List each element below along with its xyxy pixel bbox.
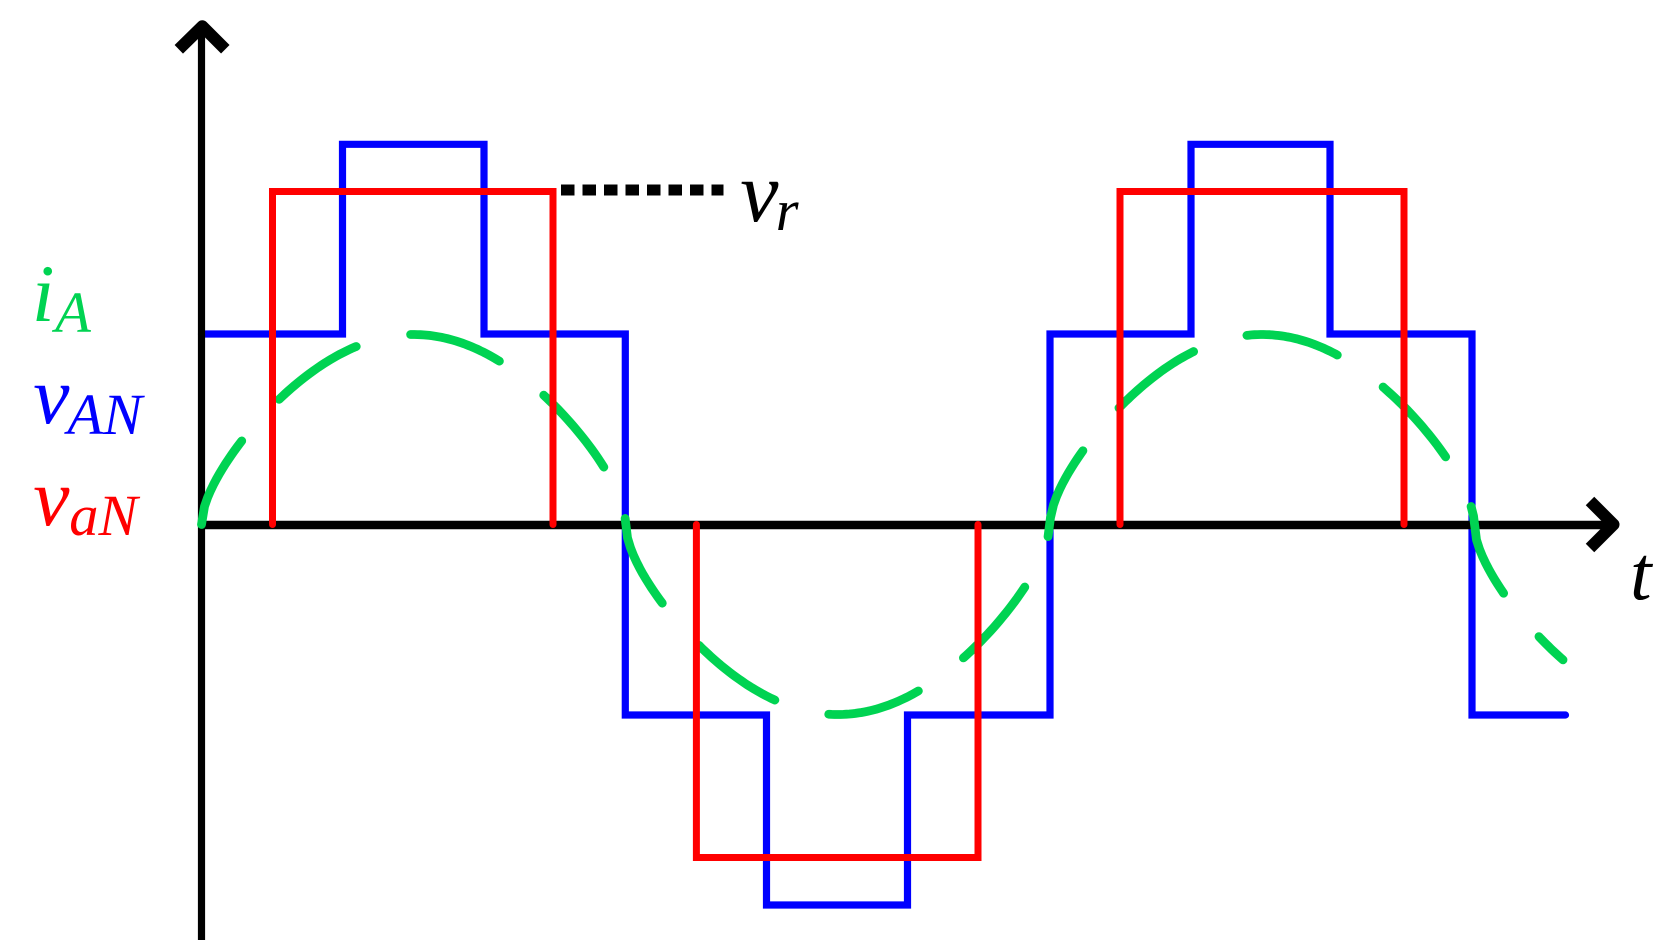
label vAN xyxy=(33,395,69,397)
label vr xyxy=(740,191,778,193)
label t xyxy=(1630,572,1651,574)
vertical axis arrowhead xyxy=(179,26,226,49)
current iA (green dashed sine) xyxy=(202,335,1564,715)
waveform vAN (blue six-step) xyxy=(202,144,1566,905)
waveform vaN negative pulse (red) xyxy=(696,525,978,858)
horizontal axis arrowhead xyxy=(1590,501,1614,548)
waveform vaN positive pulse 2 (red) xyxy=(1120,192,1404,525)
label vaN xyxy=(33,497,69,499)
waveform vaN positive pulse 1 (red) xyxy=(273,192,554,525)
horizontal axis (t) xyxy=(198,521,1607,529)
label iA xyxy=(32,293,55,295)
dashed reference line vr xyxy=(561,185,724,196)
vertical axis xyxy=(198,26,205,940)
